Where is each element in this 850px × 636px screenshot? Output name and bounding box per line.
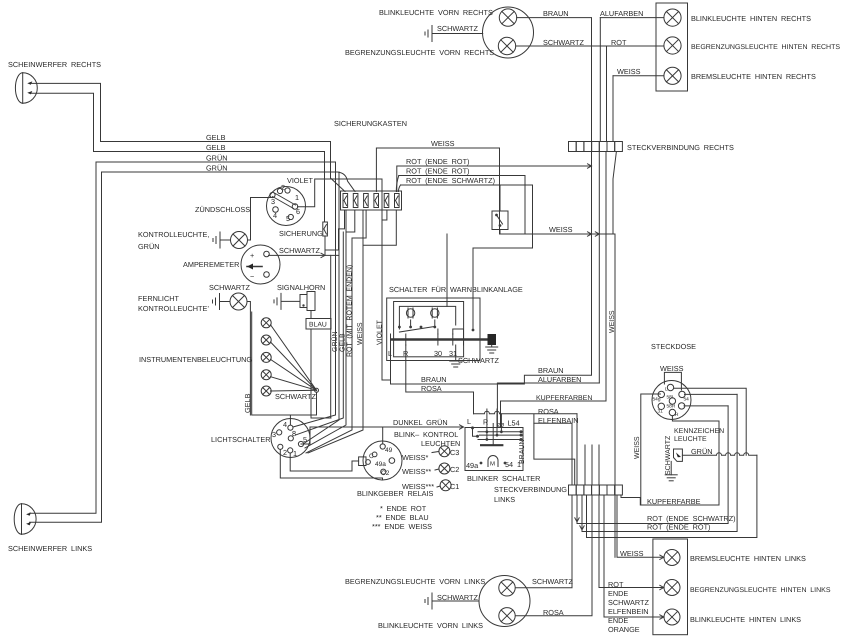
svg-text:BLAU: BLAU: [309, 322, 327, 329]
wire rot mit rotem enden: [305, 210, 346, 448]
svg-text:STECKDOSE: STECKDOSE: [651, 342, 696, 351]
svg-text:ROSA: ROSA: [538, 407, 559, 416]
svg-text:AMPEREMETER: AMPEREMETER: [183, 260, 239, 269]
warnblink ground 31: [455, 345, 457, 361]
wire blinker 54 drop: [534, 415, 575, 486]
svg-text:L: L: [467, 417, 471, 426]
svg-text:C2: C2: [450, 465, 459, 474]
svg-text:1: 1: [295, 193, 299, 202]
svg-text:ZÜNDSCHLOSS: ZÜNDSCHLOSS: [195, 205, 250, 214]
wire pin6 violet: [298, 179, 391, 380]
warnblink bar terminals: [390, 334, 392, 345]
svg-text:* ENDE ROT: * ENDE ROT: [380, 504, 427, 513]
svg-text:BRAUN: BRAUN: [538, 366, 564, 375]
svg-text:GRÜN: GRÜN: [138, 242, 160, 251]
lamp C2: [439, 463, 450, 474]
wire KUPFERFARBEN bus: [501, 401, 607, 428]
svg-text:** ENDE BLAU: ** ENDE BLAU: [376, 513, 429, 522]
warnblink switch outer box: [387, 298, 480, 361]
svg-text:M: M: [490, 461, 495, 468]
svg-text:FERNLICHT: FERNLICHT: [138, 294, 179, 303]
warnblink inner vert 30: [437, 329, 439, 334]
fuse F6: [395, 194, 400, 208]
wire GRUEN bus 2: [102, 172, 356, 192]
lamp begrenzungsleuchte hinten links: [664, 580, 680, 596]
wires bundle into lichtschalter: [293, 409, 336, 427]
svg-text:DUNKEL GRÜN: DUNKEL GRÜN: [393, 418, 448, 427]
instrument lamp 5: [261, 386, 271, 396]
wire ROT to rear lamp2: [607, 45, 664, 47]
junction arrows: [460, 425, 464, 429]
ground kontrolleuchte gruen: [215, 237, 217, 244]
wire ROT ENDE SCHWATRZ bottom: [577, 406, 728, 524]
wire kennzeichen down: [670, 461, 672, 474]
instrument lamp 4: [261, 370, 271, 380]
wire R terminal down ROSA: [406, 345, 474, 414]
lamp bremsleuchte hinten links: [664, 550, 680, 566]
svg-text:ENDE: ENDE: [608, 589, 628, 598]
lamp begrenzung vorn rechts: [498, 37, 515, 54]
svg-text:SCHWARTZ: SCHWARTZ: [275, 392, 316, 401]
left connector verticals above: [571, 423, 573, 485]
svg-text:GRÜN: GRÜN: [691, 447, 713, 456]
instrument lamp 2: [261, 335, 271, 345]
wire ELFENBAIN bus: [534, 422, 572, 424]
wire lichtschalter pin1 down: [290, 453, 358, 471]
svg-text:BLINKLEUCHTE VORN RECHTS: BLINKLEUCHTE VORN RECHTS: [379, 8, 493, 17]
svg-text:L54: L54: [508, 419, 520, 428]
wire weiss bundle: [308, 210, 363, 453]
svg-text:49a: 49a: [466, 461, 479, 470]
wire fuse2 bottom elbow: [346, 210, 355, 232]
wire weiss*** to C1: [437, 486, 440, 487]
svg-text:2: 2: [283, 448, 287, 457]
wire ROT ENDE SCHWARTZ: [401, 185, 533, 330]
lamp begrenzungsleuchte hinten rechts: [664, 37, 681, 54]
svg-text:SCHWARTZ: SCHWARTZ: [608, 598, 649, 607]
instrument lamp node: [315, 388, 319, 392]
warnblink lamp 2: [431, 309, 439, 317]
svg-text:WEISS: WEISS: [634, 436, 641, 459]
blinker terminal L: [471, 426, 474, 429]
svg-text:2: 2: [281, 183, 285, 192]
bremszugschalter box: [492, 211, 508, 230]
right bus WEISS long vertical: [614, 234, 616, 557]
wire node down: [316, 392, 318, 415]
svg-text:WEISS: WEISS: [660, 364, 684, 373]
wire headlight left bottom: [30, 172, 102, 522]
wire instrument lamp 5: [271, 389, 317, 392]
warnblink black square: [488, 334, 497, 345]
svg-text:SCHWARTZ: SCHWARTZ: [279, 246, 320, 255]
lamp blinkleuchte hinten links: [664, 609, 680, 625]
fuse F5: [384, 194, 389, 208]
wire bundle extra b: [296, 232, 344, 435]
svg-text:54: 54: [684, 397, 690, 403]
wire fernlicht lamp right: [247, 302, 250, 416]
svg-text:3: 3: [271, 197, 275, 206]
wire ALUFARBEN to rear lamp: [600, 17, 664, 19]
rear right lamp box: [656, 3, 688, 91]
key slot: [273, 193, 296, 209]
wire lichtschalter pin4 up: [289, 415, 291, 425]
wire steckdose R down: [672, 416, 719, 505]
svg-text:BLINKLEUCHTE HINTEN RECHTS: BLINKLEUCHTE HINTEN RECHTS: [691, 14, 811, 23]
svg-text:BEGRENZUNGSLEUCHTE VORN LINK: BEGRENZUNGSLEUCHTE VORN LINKS: [345, 577, 485, 586]
svg-text:SCHWARTZ: SCHWARTZ: [437, 24, 478, 33]
blinker lamp glyph: [488, 456, 498, 467]
vertical WEISS right: [612, 76, 614, 142]
svg-text:BEGRENZUNGSLEUCHTE HINTEN LI: BEGRENZUNGSLEUCHTE HINTEN LINKS: [690, 587, 831, 594]
svg-text:VIOLET: VIOLET: [287, 176, 313, 185]
blinker switch bar thick: [481, 444, 502, 446]
wire bundle extra a: [330, 255, 332, 418]
amperemeter: [241, 245, 280, 284]
right bus below connector 3: [605, 152, 607, 402]
wire ROT ENDE ROT bottom: [582, 394, 737, 531]
warnblink inner box: [394, 302, 464, 357]
wire instrument lamp 2: [271, 342, 317, 390]
lamp bremsleuchte hinten rechts: [664, 67, 681, 84]
svg-text:1: 1: [293, 449, 297, 458]
front lamps left housing: [479, 576, 530, 627]
wire weiss** to C2: [435, 469, 439, 470]
svg-text:BLINKLEUCHTE VORN LINKS: BLINKLEUCHTE VORN LINKS: [378, 621, 483, 630]
wire BRAUN front to bus: [517, 18, 592, 142]
wire L terminal down BRAUN: [391, 345, 592, 384]
wire ROT ENDE ROT 1 to fuse6: [397, 166, 592, 192]
warnblink ground right: [491, 345, 493, 347]
wire sicherung down to schwartz: [324, 236, 326, 255]
svg-text:49: 49: [385, 447, 393, 454]
warnblink small box 31: [453, 329, 464, 334]
wire SCHWARTZ front bottom: [516, 46, 607, 142]
svg-text:SCHALTER FÜR WARNBLINKANLAGE: SCHALTER FÜR WARNBLINKANLAGE: [389, 285, 523, 294]
svg-text:WEISS: WEISS: [617, 67, 641, 76]
wire steckdose 54 right: [685, 393, 738, 395]
warnblink switch lever: [399, 327, 434, 333]
svg-text:8: 8: [292, 429, 296, 438]
svg-text:4: 4: [283, 420, 287, 429]
wire rear left lamp3 feed: [604, 495, 664, 617]
blinker vertical feeds inside: [486, 409, 488, 440]
blinker schalter box: [465, 428, 523, 471]
wire lichtschalter pin2 down: [280, 450, 382, 481]
ground signalhorn: [276, 298, 278, 305]
wire steckdose L right: [674, 388, 747, 455]
svg-text:BREMSLEUCHTE HINTEN LINKS: BREMSLEUCHTE HINTEN LINKS: [690, 554, 806, 563]
steckdose weiss bracket: [664, 372, 681, 390]
wire GELB bus 2: [94, 152, 325, 223]
svg-text:BLINKGEBER RELAIS: BLINKGEBER RELAIS: [357, 489, 434, 498]
wire WEISS to fuse4: [376, 148, 499, 234]
svg-text:LINKS: LINKS: [494, 495, 515, 504]
svg-text:SCHWARTZ: SCHWARTZ: [532, 577, 573, 586]
svg-text:WEISS: WEISS: [549, 225, 573, 234]
svg-text:R: R: [483, 418, 488, 427]
wire bremszug top: [499, 185, 501, 211]
svg-text:ALUFARBEN: ALUFARBEN: [600, 9, 643, 18]
wire rear left lamp2 feed: [599, 495, 664, 588]
wire GRUEN kennzeichen: [682, 453, 757, 456]
wire headlight right top: [31, 83, 101, 141]
signalhorn symbol: [307, 292, 315, 311]
svg-text:4: 4: [273, 211, 277, 220]
wire fuse5 bottom elbow: [382, 210, 387, 220]
svg-text:SCHEINWERFER RECHTS: SCHEINWERFER RECHTS: [8, 60, 101, 69]
right bus below connector 4 diagonal: [613, 152, 616, 235]
svg-text:BRAUN: BRAUN: [421, 375, 447, 384]
wire instrument lamp 1: [271, 325, 317, 391]
svg-text:−: −: [250, 272, 254, 281]
svg-text:ROT (ENDE SCHWARTZ): ROT (ENDE SCHWARTZ): [406, 176, 495, 185]
svg-text:SIGNALHORN: SIGNALHORN: [277, 283, 325, 292]
headlight right: [22, 73, 24, 103]
svg-text:SCHEINWERFER LINKS: SCHEINWERFER LINKS: [8, 544, 92, 553]
svg-text:ELFENBEIN: ELFENBEIN: [608, 607, 649, 616]
wire instrument lamp 4: [271, 377, 317, 391]
wire gelb vertical bundle: [301, 409, 339, 444]
lamp begrenzung vorn links: [499, 580, 515, 596]
kennzeichenleuchte symbol: [674, 449, 683, 461]
wire fuse3 bottom elbow: [306, 210, 366, 453]
svg-text:STECKVERBINDUNG RECHTS: STECKVERBINDUNG RECHTS: [627, 143, 734, 152]
lamp C3: [439, 446, 450, 457]
svg-text:WEISS**: WEISS**: [402, 467, 431, 476]
lamp blink vorn rechts: [499, 9, 516, 26]
svg-text:ROT (ENDE ROT): ROT (ENDE ROT): [406, 157, 469, 166]
blinkgeber relais circle: [363, 441, 402, 480]
svg-text:BLINKLEUCHTE HINTEN LINKS: BLINKLEUCHTE HINTEN LINKS: [690, 615, 801, 624]
svg-text:49a: 49a: [375, 461, 386, 468]
lamp blinkleuchte hinten rechts: [664, 9, 681, 26]
fuse F4: [374, 194, 379, 208]
single fuse SICHERUNG: [323, 222, 328, 236]
wire steckdose 58R right: [684, 405, 728, 407]
wire ROSA front left bottom: [516, 495, 593, 616]
wire WEISS rear left lamp1: [617, 495, 664, 557]
blinker internal rows: [478, 431, 521, 433]
lamp blink vorn links: [499, 608, 515, 624]
connector STECKVERBINDUNG LINKS: [569, 485, 577, 495]
instrument lamp 3: [261, 352, 271, 362]
wire bremszug WEISS: [500, 230, 615, 235]
wire dunkel gruen: [304, 427, 464, 444]
wire SCHWARTZ front left top: [516, 495, 573, 588]
svg-text:GRÜN: GRÜN: [206, 164, 228, 173]
instrument lamp 1: [261, 318, 271, 328]
svg-text:BLINKER SCHALTER: BLINKER SCHALTER: [467, 474, 540, 483]
svg-text:*** ENDE WEISS: *** ENDE WEISS: [372, 522, 432, 531]
svg-text:BRAUN: BRAUN: [543, 9, 569, 18]
wire ROT ENDE ROT 2: [399, 176, 525, 235]
svg-text:BLINK– KONTROL: BLINK– KONTROL: [394, 430, 458, 439]
wire instrument lamp 3: [271, 359, 317, 390]
svg-text:INSTRUMENTENBELEUCHTUNG: INSTRUMENTENBELEUCHTUNG: [139, 355, 252, 364]
wire headlight left top: [30, 162, 96, 513]
front lamps right housing: [483, 7, 534, 58]
warnblink lamp 1: [406, 309, 414, 317]
connector STECKVERBINDUNG RECHTS: [569, 142, 577, 152]
wire ALUFARBEN bus right: [497, 383, 599, 428]
svg-text:GELB: GELB: [206, 143, 226, 152]
wire blau down: [311, 329, 331, 418]
svg-text:WEISS*: WEISS*: [402, 453, 429, 462]
svg-text:C3: C3: [450, 448, 459, 457]
svg-text:BEGRENZUNGSLEUCHTE VORN RECH: BEGRENZUNGSLEUCHTE VORN RECHTS: [345, 48, 494, 57]
wire KUPFERFARBE bottom: [621, 495, 719, 505]
wire GRUEN bus 1: [96, 162, 336, 409]
wire weiss* to C3: [432, 452, 439, 453]
svg-text:SICHERUNGKASTEN: SICHERUNGKASTEN: [334, 119, 407, 128]
wire headlight right bottom: [31, 93, 94, 151]
svg-text:SCHWARTZ: SCHWARTZ: [209, 283, 250, 292]
fuse F1: [343, 194, 348, 208]
wire GRUEN return: [587, 455, 757, 537]
kontrolleuchte gruen lamp: [231, 232, 248, 249]
label WEISS bremszug: [549, 225, 573, 234]
svg-text:GRÜN: GRÜN: [206, 154, 228, 163]
wire signalhorn to blau: [310, 311, 312, 319]
svg-text:6: 6: [296, 207, 300, 216]
svg-text:+: +: [250, 251, 254, 260]
svg-text:KONTROLLEUCHTE’: KONTROLLEUCHTE’: [138, 304, 209, 313]
svg-text:LEUCHTE: LEUCHTE: [674, 436, 707, 443]
svg-text:KENNZEICHEN: KENNZEICHEN: [674, 428, 724, 435]
wire lamp to pin3: [248, 239, 251, 241]
svg-text:BREMSLEUCHTE HINTEN RECHTS: BREMSLEUCHTE HINTEN RECHTS: [691, 72, 816, 81]
svg-text:ORANGE: ORANGE: [608, 625, 640, 634]
instrument panel frame: [252, 312, 317, 415]
fernlicht kontrolleuchte lamp: [230, 293, 247, 310]
rear left lamp box: [653, 539, 688, 635]
lichtschalter circle: [271, 419, 310, 458]
wire fuse1 bottom elbow: [326, 210, 345, 250]
wire steckdose 54g left: [641, 394, 661, 505]
BLAU box: [306, 319, 331, 330]
right bus below connector 1: [591, 152, 593, 376]
fuse F2: [353, 194, 358, 208]
fuse box SICHERUNGKASTEN: [341, 191, 402, 210]
wire fuse6 bottom elbow: [363, 210, 396, 245]
warnblink contact row: [398, 326, 401, 329]
fuse F3: [364, 194, 369, 208]
svg-text:WEISS: WEISS: [431, 139, 455, 148]
svg-text:3: 3: [272, 430, 276, 439]
svg-text:GELB: GELB: [206, 133, 226, 142]
headlight left: [21, 504, 23, 534]
wire pin3 to kontrolleuchte: [251, 198, 274, 241]
bremszug contacts: [495, 214, 498, 217]
wire relais top: [382, 427, 384, 444]
svg-text:STECKVERBINDUNG: STECKVERBINDUNG: [494, 485, 567, 494]
ground front right: [427, 30, 429, 37]
amperemeter arrow: [247, 266, 262, 268]
svg-text:BEGRENZUNGSLEUCHTE HINTEN RE: BEGRENZUNGSLEUCHTE HINTEN RECHTS: [691, 44, 840, 51]
ground fernlicht: [215, 298, 217, 305]
ignition ZUENDSCHLOSS: [267, 187, 306, 226]
relais left tab: [359, 457, 366, 466]
svg-text:5: 5: [286, 214, 290, 223]
lamp C1: [440, 480, 451, 491]
right bus below connector 2: [598, 152, 600, 384]
warnblink thick bar: [392, 338, 488, 341]
wire ground front right: [432, 33, 483, 35]
wire SCHWARTZ amperemeter: [269, 254, 340, 256]
steckdose circle: [652, 381, 691, 420]
svg-text:SICHERUNG: SICHERUNG: [279, 229, 323, 238]
vertical ALUFARBEN bus: [599, 18, 601, 142]
svg-text:KONTROLLEUCHTE,: KONTROLLEUCHTE,: [138, 230, 209, 239]
wire WEISS to rear lamp3: [613, 75, 664, 77]
ground front left: [427, 598, 429, 605]
wire GELB bus 1: [101, 142, 346, 192]
wire warnblink top feed: [446, 234, 448, 306]
warnblink internal top rail: [399, 306, 455, 325]
svg-text:LICHTSCHALTER: LICHTSCHALTER: [211, 435, 270, 444]
svg-text:ROT (ENDE ROT): ROT (ENDE ROT): [406, 167, 469, 176]
svg-text:WEISS: WEISS: [620, 549, 644, 558]
